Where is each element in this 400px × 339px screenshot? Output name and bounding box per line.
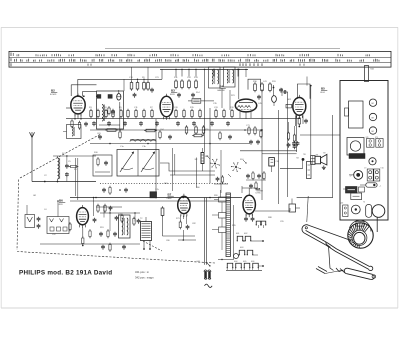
panel knob K3 <box>369 127 376 134</box>
B6 anode parts row <box>97 204 113 213</box>
dropper taps <box>219 197 227 250</box>
oscillator trimmer oval <box>117 90 121 100</box>
coil box under B2 <box>63 125 81 139</box>
wire mid bus 2 <box>90 129 262 131</box>
junction dot left <box>96 95 98 97</box>
selector row 1 <box>237 236 264 242</box>
B8 arches <box>256 221 267 228</box>
svg-text:B5: B5 <box>321 87 325 91</box>
blade kink scribble <box>326 243 331 248</box>
svg-text:341 pos : m: 341 pos : m <box>135 270 150 274</box>
B7 pins chain <box>179 216 189 241</box>
dashed chassis bottom edge <box>17 252 215 264</box>
panel knob K1 <box>369 99 376 106</box>
B4 anode loop <box>248 79 261 89</box>
B8 pin caps <box>244 214 254 222</box>
aerial stub TA2 <box>365 66 375 82</box>
dark resistor 302 <box>195 148 205 171</box>
mains plug <box>204 270 211 279</box>
parts below switch <box>214 175 266 190</box>
output connector <box>289 199 300 213</box>
svg-text:M: M <box>372 103 374 105</box>
band switch wafer S1 <box>210 159 220 169</box>
antenna lead <box>31 138 33 182</box>
tube B8 UY85 <box>243 193 255 217</box>
wire left feed 3 <box>83 91 97 97</box>
resistor group detector <box>254 82 283 106</box>
caps left of B8 <box>246 171 265 180</box>
resistor group RF front <box>130 79 154 98</box>
wire mid segment 5 <box>240 151 297 154</box>
svg-text:B3: B3 <box>171 89 175 93</box>
loudspeaker <box>315 154 327 165</box>
B8 top wire <box>242 188 258 193</box>
parts below gang link <box>102 186 128 195</box>
wire output link <box>297 197 333 199</box>
IF transformer can 1 <box>209 67 221 88</box>
B6 bottom parts <box>101 243 126 252</box>
wire agc bus 2 <box>70 200 230 202</box>
panel knob K2 <box>369 113 376 120</box>
link wire to switch <box>307 196 308 222</box>
lower IF can <box>119 215 131 238</box>
FM unit box <box>93 155 112 176</box>
connector pair B <box>375 137 383 147</box>
wire HT bus <box>160 68 248 70</box>
resistor row below tubes left <box>90 109 153 119</box>
svg-text:220: 220 <box>341 203 344 205</box>
svg-text:342 pos : magn: 342 pos : magn <box>135 275 154 279</box>
wire switch to dropper <box>221 150 242 193</box>
vertical pair left <box>76 158 78 200</box>
model title <box>19 270 112 277</box>
antenna base wire <box>32 181 96 183</box>
antenna coil <box>58 156 60 182</box>
tube B5 UL84 <box>293 95 306 119</box>
wire mid bus 1 <box>66 118 300 120</box>
svg-text:B6: B6 <box>59 199 63 203</box>
svg-text:→1: →1 <box>379 186 382 188</box>
wire bus vertical drops <box>175 69 239 77</box>
tube B2 pin wires <box>74 114 82 120</box>
mains cord <box>205 198 207 265</box>
svg-text:70: 70 <box>363 202 365 204</box>
tube B6 UF89 <box>77 205 89 228</box>
tuning gang capacitor <box>117 150 159 177</box>
dial scale band labels <box>11 53 13 67</box>
IF coil horizontal <box>188 99 214 104</box>
wire speaker feed <box>300 134 340 136</box>
B2 cathode parts <box>71 119 88 130</box>
spring detail <box>316 267 345 274</box>
svg-text:C4: C4 <box>44 209 46 211</box>
volume pot with switch <box>307 162 312 179</box>
output transformer <box>141 217 152 241</box>
svg-text:9.10: 9.10 <box>381 168 384 170</box>
wire vertical V2 <box>155 119 157 198</box>
svg-text:719: 719 <box>323 153 326 155</box>
dial glass top line <box>105 48 340 50</box>
wire right of dropper <box>221 190 234 259</box>
resistor trio below B3 <box>185 125 205 135</box>
connector pair C <box>364 168 373 182</box>
svg-text:UF89: UF89 <box>58 204 63 206</box>
mains transformer <box>345 101 364 128</box>
wire vertical V4 <box>209 108 211 183</box>
svg-text:302: 302 <box>195 159 198 161</box>
oscillator shield box <box>97 91 124 129</box>
svg-text:726: 726 <box>303 154 306 156</box>
wire mid bus 3 <box>90 143 250 145</box>
volume pot <box>150 192 157 198</box>
svg-text:B7: B7 <box>168 192 172 196</box>
svg-text:M: M <box>372 131 374 133</box>
pivot wire <box>329 246 344 272</box>
dark terminal bar <box>349 154 365 159</box>
wire lower bus <box>40 243 140 245</box>
svg-text:734: 734 <box>296 158 299 160</box>
wire left feed 2 <box>71 85 96 96</box>
wire vertical V4b <box>173 148 175 191</box>
resistor near B7 <box>161 206 164 236</box>
wire B5 screen <box>307 77 312 87</box>
wire B4 top to bus <box>238 69 240 96</box>
svg-text:378: 378 <box>366 137 369 139</box>
svg-text:ECH81: ECH81 <box>50 94 57 96</box>
input labels <box>27 195 94 217</box>
dial scale lower row tick marks <box>15 59 380 62</box>
mains dropper resistor <box>226 193 230 257</box>
wires lower left block <box>96 206 140 231</box>
svg-text:B2: B2 <box>51 89 55 93</box>
drive cord upper <box>309 225 352 240</box>
transformer legs <box>143 241 151 250</box>
lamp capsule vertical <box>366 205 372 218</box>
tube B4 twin triode <box>235 96 256 120</box>
dial scale frame <box>9 51 391 67</box>
wire vertical V8 <box>296 116 298 153</box>
mains switch <box>197 261 211 267</box>
svg-text:M: M <box>372 117 374 119</box>
dashed link lower <box>143 241 162 251</box>
osc coil horizontal <box>130 139 156 141</box>
selector row 3 <box>226 263 264 270</box>
wire B2 grid left <box>66 107 71 109</box>
scanned page edge right <box>397 27 399 308</box>
svg-text:379: 379 <box>375 137 378 139</box>
pointer blade lower <box>304 233 368 269</box>
wire vertical V9 <box>310 86 312 156</box>
shielded input box <box>47 217 69 234</box>
svg-text:17: 17 <box>350 176 352 178</box>
B6 grid parts <box>69 218 97 247</box>
mid parts group 1 <box>105 129 204 137</box>
dashed chassis left edge <box>17 180 19 251</box>
chassis rear panel outline <box>340 81 388 221</box>
tube B5 label <box>320 87 327 94</box>
pointer left end <box>302 225 309 233</box>
dial scale upper row tick marks <box>17 54 370 56</box>
wire vertical V10 <box>332 115 334 198</box>
dial scale bottom row marks <box>88 63 304 66</box>
selector row 2 <box>234 250 259 258</box>
drive arm capsule <box>344 268 375 279</box>
dashed chassis diagonal <box>20 134 100 178</box>
motor circle <box>351 205 360 214</box>
lower parts row <box>89 229 117 238</box>
mid parts group 3 <box>248 126 263 145</box>
tuning drum <box>348 220 373 248</box>
fuse holder <box>343 187 365 194</box>
B6 coupling cluster <box>115 214 141 226</box>
panel knob K4 <box>369 158 376 165</box>
voltage plate <box>341 203 349 217</box>
capacitor row mid <box>92 121 230 126</box>
svg-text:UABC80: UABC80 <box>217 89 226 92</box>
caps above speaker <box>292 141 299 146</box>
connector pair A <box>366 137 375 147</box>
antenna symbol <box>30 132 35 138</box>
wire left feed 1 <box>77 79 79 96</box>
tube B2 ECH81 <box>71 94 85 118</box>
svg-text:UY85: UY85 <box>256 192 262 194</box>
gang mechanical link <box>100 183 228 185</box>
wire feed bus left <box>78 67 162 91</box>
band switch wafer S2 <box>231 162 241 172</box>
position note <box>135 270 154 279</box>
capacitor near B5 <box>282 88 292 108</box>
wire vertical V3 <box>204 69 206 152</box>
wire vertical V7 <box>287 92 289 197</box>
pointer tip <box>369 266 373 270</box>
IF transformer can 2 <box>224 67 236 87</box>
wire vertical V5 <box>261 89 263 200</box>
AC wave symbol <box>205 284 213 287</box>
mid parts column right <box>287 122 297 149</box>
wire B8 anode <box>255 208 290 211</box>
speaker ground <box>322 166 326 170</box>
panel knob K5 <box>349 170 363 179</box>
tube B7 label <box>167 192 174 200</box>
tube B8 label <box>256 187 263 194</box>
fuse block <box>351 193 365 204</box>
wire mid bus 4 <box>160 163 215 175</box>
svg-text:718: 718 <box>316 154 319 156</box>
input jack box <box>25 215 40 229</box>
tube B7 <box>178 194 190 217</box>
wire vertical V4c <box>196 158 198 188</box>
wire to pot <box>280 161 303 169</box>
svg-text:1.9: 1.9 <box>364 168 366 170</box>
dropper tap wires <box>212 200 219 230</box>
tube B4 label <box>217 85 226 93</box>
tube B6 label <box>58 199 65 206</box>
tube B2 label <box>50 89 57 97</box>
connector pair D <box>374 168 384 182</box>
switch contact marks <box>206 155 246 177</box>
speaker labels <box>296 153 326 160</box>
resistor group IF stage <box>175 79 198 98</box>
B5 grid loop <box>297 84 310 99</box>
electrolytic C94 <box>269 158 279 172</box>
antenna coil top wire <box>53 155 96 157</box>
mains socket <box>372 205 385 218</box>
wire agc bus <box>70 197 242 199</box>
tube B3 label <box>170 89 177 97</box>
wire vertical V6 <box>278 110 280 204</box>
cord from panel <box>376 218 378 233</box>
svg-text:1.2k: 1.2k <box>155 189 159 191</box>
pointer blade upper <box>306 230 370 266</box>
component reference labels <box>44 77 292 263</box>
extra top band verticals <box>222 69 247 110</box>
svg-text:C94: C94 <box>276 161 279 163</box>
scanned page edge bottom <box>1 307 398 309</box>
tube socket plate <box>347 138 364 156</box>
tube B3 EF89 <box>160 94 173 120</box>
scanned page edge top <box>1 26 398 28</box>
mid parts group 2 <box>98 130 232 140</box>
B5 lower parts <box>296 115 308 127</box>
svg-text:B4: B4 <box>220 85 224 89</box>
antenna trimmers <box>65 155 78 181</box>
svg-text:PHILIPS mod. B2 191A David: PHILIPS mod. B2 191A David <box>19 270 112 277</box>
pilot lamp capsule <box>360 183 381 188</box>
wire B7 bottom <box>163 236 197 240</box>
heater wire <box>218 259 234 260</box>
resistor row below tubes right <box>175 109 233 119</box>
output transformer T1 <box>311 156 315 165</box>
junction dot big <box>302 158 305 161</box>
scanned page edge left <box>0 27 2 308</box>
